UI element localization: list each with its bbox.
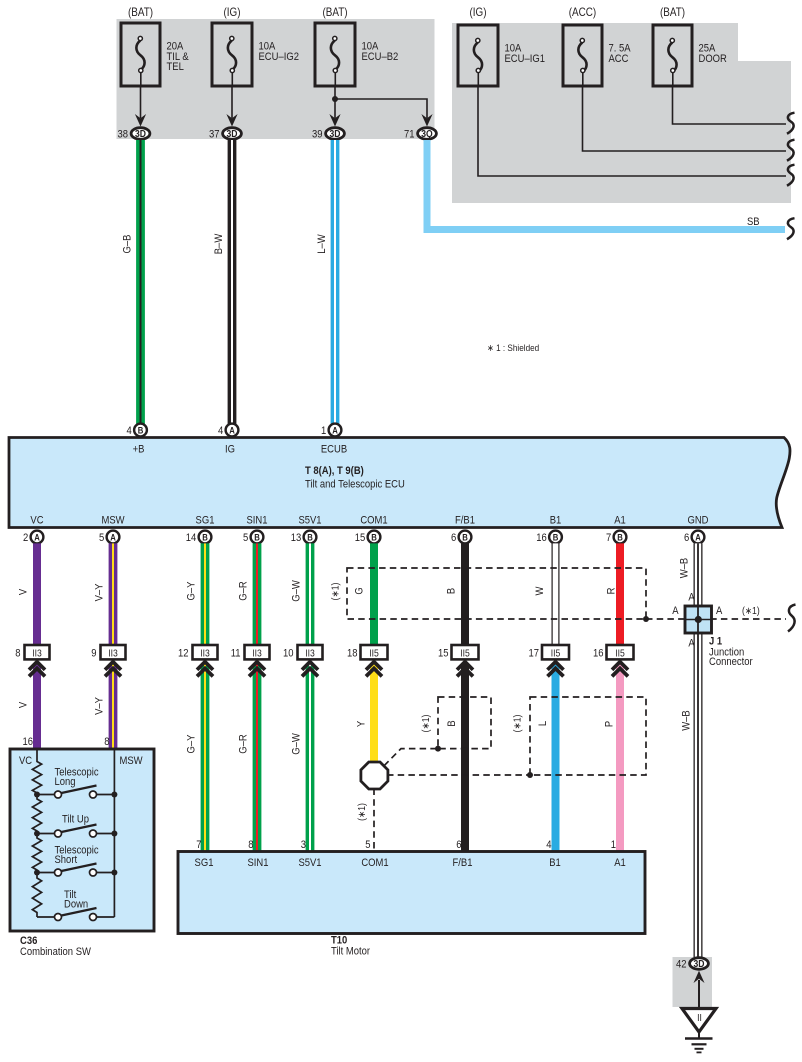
dashed line octagon to F/B1 shield box <box>384 749 438 766</box>
tilt motor box T10 <box>178 852 645 934</box>
shield dashed box (F/B1 lower) <box>420 697 491 749</box>
svg-text:B1: B1 <box>549 857 561 869</box>
ECU pin 2(A) VC <box>23 531 43 545</box>
svg-text:A: A <box>229 425 235 436</box>
wire W (B1) <box>534 543 555 646</box>
svg-text:DOOR: DOOR <box>699 53 727 65</box>
ECU pin 4(A) IG <box>218 424 238 438</box>
wire: fuse F1 to connector 38 <box>140 86 142 118</box>
svg-text:4: 4 <box>218 425 224 437</box>
svg-text:W–B: W–B <box>681 710 693 731</box>
svg-text:COM1: COM1 <box>361 857 389 869</box>
ECU pin 15(B) COM1 <box>355 531 381 545</box>
svg-text:F/B1: F/B1 <box>455 515 475 527</box>
wire G-Y to motor pin 7 <box>186 664 205 852</box>
connector 15 II5 (F/B1) <box>438 645 479 660</box>
wire B to motor pin 6 <box>446 664 465 852</box>
svg-text:37: 37 <box>209 129 220 141</box>
svg-text:6: 6 <box>456 839 462 851</box>
wire V-Y to combination switch pin 8 <box>94 664 113 750</box>
continuation hook (shield line) <box>788 605 796 632</box>
junction dot on L/P shield box corner <box>527 772 533 778</box>
arrow into connector 8 II3 <box>29 662 45 677</box>
svg-text:G–W: G–W <box>291 733 303 755</box>
svg-text:B: B <box>371 532 377 543</box>
continuation hook (ACC) <box>787 140 795 161</box>
combination switch box C36 <box>10 749 154 931</box>
svg-text:II: II <box>697 1012 702 1023</box>
svg-text:MSW: MSW <box>101 515 124 527</box>
svg-text:(BAT): (BAT) <box>660 6 685 19</box>
svg-text:ECU–B2: ECU–B2 <box>362 51 399 63</box>
svg-text:W–B: W–B <box>679 558 691 579</box>
fuse F6 25A DOOR <box>653 6 727 86</box>
ECU box T8(A)/T9(B) Tilt and Telescopic ECU <box>9 438 790 528</box>
svg-text:B–W: B–W <box>213 233 225 254</box>
switch Tilt Up <box>37 814 114 837</box>
svg-text:(∗1): (∗1) <box>330 583 341 601</box>
svg-text:3Q: 3Q <box>421 129 432 140</box>
wire G-R (SIN1) <box>238 543 257 646</box>
wire V (VC) <box>18 543 37 646</box>
wire: fuse F2 to connector 37 <box>231 86 233 118</box>
svg-text:Long: Long <box>55 776 76 788</box>
connector 18 II5 (COM1) <box>347 645 388 660</box>
svg-text:(∗1): (∗1) <box>356 803 367 821</box>
svg-text:G–W: G–W <box>291 580 303 602</box>
svg-text:V: V <box>18 589 30 595</box>
wire triangle to earth <box>698 1032 700 1039</box>
ECU bottom pin names <box>30 515 708 527</box>
wire SB (sky blue) from connector 71 to page edge <box>427 140 785 230</box>
wire G-W (S5V1) <box>291 543 310 646</box>
arrow into connector 15 II5 <box>457 662 473 677</box>
svg-text:5: 5 <box>243 532 249 544</box>
svg-text:A: A <box>716 605 722 617</box>
svg-text:G–R: G–R <box>238 734 250 753</box>
svg-text:7: 7 <box>196 839 202 851</box>
svg-text:8: 8 <box>104 736 110 748</box>
svg-text:S5V1: S5V1 <box>298 515 321 527</box>
svg-text:B: B <box>446 588 458 594</box>
continuation hook (DOOR) <box>787 113 795 134</box>
wire G-R to motor pin 8 <box>238 664 257 852</box>
resistor (ladder segment 2) <box>32 795 41 834</box>
svg-text:6: 6 <box>451 532 457 544</box>
ECU pin 1(A) ECUB <box>321 424 341 438</box>
connector 39 3D <box>312 114 344 141</box>
svg-text:G–Y: G–Y <box>186 581 198 600</box>
label T10 Tilt Motor <box>331 935 371 958</box>
svg-text:8: 8 <box>15 648 21 660</box>
svg-text:Y: Y <box>356 721 368 727</box>
wire R (A1) <box>606 543 620 646</box>
fuse block background (right) <box>452 23 791 203</box>
connector 37 3D <box>209 114 241 141</box>
svg-text:II3: II3 <box>108 648 118 659</box>
connector 9 II3 (MSW) <box>91 645 125 660</box>
svg-text:B: B <box>254 532 260 543</box>
svg-text:9: 9 <box>91 648 97 660</box>
svg-text:42: 42 <box>676 959 687 971</box>
ECU pin 5(B) SIN1 <box>243 531 263 545</box>
svg-text:A: A <box>332 425 338 436</box>
svg-text:MSW: MSW <box>120 755 143 767</box>
svg-text:II3: II3 <box>200 648 210 659</box>
svg-text:10: 10 <box>283 648 294 660</box>
svg-text:G–Y: G–Y <box>186 734 198 753</box>
svg-text:5: 5 <box>99 532 105 544</box>
svg-text:II3: II3 <box>32 648 42 659</box>
svg-text:(∗1): (∗1) <box>742 605 760 616</box>
svg-text:B: B <box>446 720 458 726</box>
svg-text:18: 18 <box>347 648 358 660</box>
connector 42 3D <box>676 958 708 971</box>
arrow into connector 11 II3 <box>249 662 265 677</box>
svg-text:W: W <box>534 586 546 595</box>
svg-text:16: 16 <box>536 532 547 544</box>
wire L to motor pin 4 <box>537 664 555 852</box>
ECU pin 6(B) F/B1 <box>451 531 471 545</box>
svg-text:G: G <box>354 587 366 594</box>
svg-text:1: 1 <box>611 839 617 851</box>
svg-text:P: P <box>604 721 616 727</box>
wire Y to shield octagon <box>356 664 374 762</box>
svg-text:ECUB: ECUB <box>321 444 347 456</box>
resistor (ladder segment 4) <box>32 873 41 918</box>
svg-text:12: 12 <box>178 648 189 660</box>
svg-text:5: 5 <box>365 839 371 851</box>
ECU pin 4(B) +B <box>127 424 147 438</box>
svg-text:R: R <box>606 588 618 595</box>
svg-text:II5: II5 <box>615 648 625 659</box>
arrow into connector 16 II5 <box>612 662 628 677</box>
fuse F5 7.5A ACC <box>563 6 631 86</box>
svg-text:A: A <box>110 532 116 543</box>
svg-text:Down: Down <box>64 899 88 911</box>
svg-text:14: 14 <box>186 532 197 544</box>
svg-text:VC: VC <box>19 755 33 767</box>
svg-text:II5: II5 <box>551 648 561 659</box>
arrow into connector 10 II3 <box>302 662 318 677</box>
switch Tilt Down <box>37 889 114 920</box>
svg-text:16: 16 <box>593 648 604 660</box>
ECU pin 13(B) S5V1 <box>291 531 317 545</box>
shield octagon <box>361 762 388 789</box>
svg-text:A: A <box>672 605 678 617</box>
svg-text:(BAT): (BAT) <box>128 6 153 19</box>
ECU pin 6(A) GND <box>684 531 704 545</box>
svg-text:B: B <box>307 532 313 543</box>
wire: fuse F3 to connector 39 with branch to 71 <box>335 86 427 118</box>
fuse F3 10A ECU-B2 <box>315 6 399 86</box>
svg-text:15: 15 <box>355 532 366 544</box>
shield dashed box (B1,A1 lower) <box>512 697 646 775</box>
svg-text:15: 15 <box>438 648 449 660</box>
fuse F1 20A TIL&amp;TEL <box>121 6 189 86</box>
junction dot shield box corner <box>643 616 649 622</box>
ground triangle II <box>682 1009 716 1032</box>
svg-text:A1: A1 <box>614 515 626 527</box>
svg-text:Tilt and Telescopic ECU: Tilt and Telescopic ECU <box>305 479 405 491</box>
wire arrow to ground triangle <box>698 980 700 1008</box>
svg-text:F/B1: F/B1 <box>453 857 473 869</box>
wire: DOOR fuse to page edge <box>673 86 787 124</box>
resistor R (VC ladder segment 1) <box>32 749 41 795</box>
connector 71 3Q <box>404 114 436 141</box>
svg-text:4: 4 <box>127 425 133 437</box>
wire G-W to motor pin 3 <box>291 664 310 852</box>
svg-text:3D: 3D <box>135 129 146 140</box>
wire L-W (ECUB feed) <box>316 140 335 424</box>
svg-text:B: B <box>202 532 208 543</box>
svg-text:3D: 3D <box>227 129 238 140</box>
svg-text:GND: GND <box>687 515 708 527</box>
wire V to combination switch pin 16 <box>18 664 37 750</box>
svg-text:B: B <box>617 532 623 543</box>
ECU pin 5(A) MSW <box>99 531 119 545</box>
svg-text:SG1: SG1 <box>196 515 215 527</box>
svg-text:11: 11 <box>231 648 241 660</box>
svg-text:71: 71 <box>404 129 415 141</box>
svg-text:38: 38 <box>117 129 128 141</box>
svg-text:2: 2 <box>23 532 29 544</box>
wire G-Y (SG1) <box>186 543 205 646</box>
svg-text:(ACC): (ACC) <box>569 6 596 19</box>
gray block at ground connector <box>673 957 713 1007</box>
motor pin numbers <box>196 839 616 851</box>
svg-text:SIN1: SIN1 <box>246 515 267 527</box>
arrow up into connector 42 <box>694 971 705 983</box>
svg-text:SB: SB <box>747 216 760 228</box>
connector 16 II5 (A1) <box>593 645 634 660</box>
fuse F2 10A ECU-IG2 <box>212 6 299 86</box>
svg-text:V–Y: V–Y <box>94 583 106 601</box>
svg-text:SIN1: SIN1 <box>247 857 268 869</box>
junction dot on F3 branch <box>332 96 338 102</box>
svg-text:VC: VC <box>30 515 44 527</box>
junction connector J1 <box>672 592 753 668</box>
svg-text:T 8(A), T 9(B): T 8(A), T 9(B) <box>305 465 364 477</box>
wire: ACC fuse to page edge <box>583 86 787 151</box>
junction dots on switch buses <box>34 792 117 876</box>
svg-text:(BAT): (BAT) <box>322 6 347 19</box>
arrow into connector 9 II3 <box>105 662 121 677</box>
svg-text:V: V <box>18 702 30 708</box>
ECU pin 7(B) A1 <box>606 531 626 545</box>
svg-text:(IG): (IG) <box>223 6 240 19</box>
svg-text:SG1: SG1 <box>195 857 214 869</box>
svg-text:Connector: Connector <box>709 656 753 668</box>
svg-text:ECU–IG1: ECU–IG1 <box>505 53 546 65</box>
svg-text:8: 8 <box>248 839 254 851</box>
connector 11 II3 (SIN1) <box>231 645 270 660</box>
svg-text:TEL: TEL <box>167 62 185 74</box>
svg-text:II5: II5 <box>369 648 379 659</box>
wire G (COM1) <box>354 543 374 646</box>
svg-text:7: 7 <box>606 532 612 544</box>
connector 10 II3 (S5V1) <box>283 645 323 660</box>
fuse F4 10A ECU-IG1 <box>458 6 545 86</box>
svg-text:A: A <box>34 532 40 543</box>
wire V-Y (MSW) <box>94 543 113 646</box>
connector 38 3D <box>117 114 149 141</box>
shield dashed box (COM1,F/B1,B1,A1) <box>330 568 646 619</box>
svg-text:3D: 3D <box>694 959 705 970</box>
dashed shield line to J1 and page edge <box>646 618 786 620</box>
wire B (F/B1) <box>446 543 465 646</box>
label C36 Combination SW <box>20 935 91 958</box>
svg-text:(∗1): (∗1) <box>420 715 431 733</box>
dashed line octagon to L/P shield box <box>387 774 530 776</box>
arrow into connector 18 II5 <box>366 662 382 677</box>
svg-text:L: L <box>537 721 549 727</box>
svg-text:6: 6 <box>684 532 690 544</box>
wire B-W (IG feed) <box>213 140 232 424</box>
ECU pin 14(B) SG1 <box>186 531 212 545</box>
svg-text:V–Y: V–Y <box>94 697 106 715</box>
wire: ECU-IG1 fuse to page edge <box>478 86 786 176</box>
svg-text:17: 17 <box>528 648 539 660</box>
svg-text:(IG): (IG) <box>469 6 486 19</box>
svg-text:3: 3 <box>301 839 307 851</box>
MSW bus wire <box>113 750 115 917</box>
fuse block background (left) <box>117 19 435 139</box>
svg-text:II3: II3 <box>252 648 262 659</box>
switch Telescopic Short <box>37 845 114 876</box>
earth ground symbol <box>685 1039 713 1053</box>
svg-text:B: B <box>462 532 468 543</box>
svg-text:4: 4 <box>546 839 552 851</box>
ECU pin 16(B) B1 <box>536 531 562 545</box>
svg-text:Short: Short <box>55 854 78 866</box>
svg-text:13: 13 <box>291 532 302 544</box>
svg-text:B: B <box>553 532 559 543</box>
dashed drain wire octagon to motor COM1 <box>356 789 374 853</box>
svg-text:A: A <box>688 592 694 604</box>
svg-text:II3: II3 <box>305 648 315 659</box>
svg-text:II5: II5 <box>460 648 470 659</box>
continuation hook (SB) <box>787 218 795 239</box>
svg-text:1: 1 <box>321 425 327 437</box>
continuation hook (ECU-IG1) <box>787 165 795 186</box>
resistor (ladder segment 3) <box>32 834 41 873</box>
svg-text:39: 39 <box>312 129 323 141</box>
svg-text:L–W: L–W <box>316 234 328 254</box>
ECU top pin names <box>133 444 348 456</box>
svg-text:A: A <box>695 532 701 543</box>
svg-text:IG: IG <box>225 444 235 456</box>
svg-text:16: 16 <box>22 736 33 748</box>
arrow into connector 12 II3 <box>197 662 213 677</box>
svg-text:A: A <box>688 638 694 650</box>
svg-text:G–R: G–R <box>238 581 250 600</box>
svg-text:COM1: COM1 <box>360 515 388 527</box>
svg-text:Tilt Motor: Tilt Motor <box>331 946 371 958</box>
arrow into connector 17 II5 <box>548 662 564 677</box>
svg-text:A1: A1 <box>614 857 626 869</box>
svg-text:∗ 1 : Shielded: ∗ 1 : Shielded <box>487 342 539 353</box>
svg-text:ECU–IG2: ECU–IG2 <box>259 51 300 63</box>
connector 17 II5 (B1) <box>528 645 569 660</box>
svg-text:G–B: G–B <box>122 234 134 253</box>
switch Telescopic Long <box>37 767 114 798</box>
svg-text:S5V1: S5V1 <box>298 857 321 869</box>
svg-text:B1: B1 <box>550 515 562 527</box>
svg-text:Tilt Up: Tilt Up <box>62 814 89 826</box>
svg-text:ACC: ACC <box>609 53 630 65</box>
svg-text:3D: 3D <box>330 129 341 140</box>
wire G-B (+B feed) <box>122 140 141 424</box>
wire W-B (GND) <box>679 543 698 960</box>
svg-text:+B: +B <box>133 444 145 456</box>
svg-text:B: B <box>138 425 144 436</box>
connector 8 II3 (VC) <box>15 645 49 660</box>
connector 12 II3 (SG1) <box>178 645 218 660</box>
junction dot on F/B1 shield box corner <box>435 746 441 752</box>
wire P to motor pin 1 <box>604 664 620 852</box>
svg-text:(∗1): (∗1) <box>512 715 523 733</box>
svg-text:Combination SW: Combination SW <box>20 946 91 958</box>
